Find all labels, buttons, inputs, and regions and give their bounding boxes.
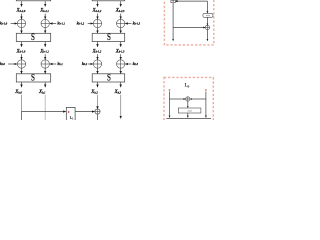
key arrow into XOR6 (from right) bbox=[50, 63, 56, 65]
wire into XOR5 bbox=[21, 54, 23, 59]
wire XOR2 to S bbox=[44, 28, 46, 33]
wire S out to label X_b-1,3 bbox=[120, 42, 122, 47]
svg-text:Xb-2,3: Xb-2,3 bbox=[115, 9, 125, 14]
key arrow into XOR2 (from right) bbox=[50, 23, 56, 25]
S-box round b-1 right bbox=[92, 33, 125, 43]
wire: arrow from top box to label X_b-2,1 bbox=[44, 1, 46, 6]
XOR3 (round b-1, word 2) bbox=[93, 19, 101, 27]
svg-text:S: S bbox=[107, 33, 111, 43]
wire into XOR7 bbox=[97, 54, 99, 59]
svg-text:Xb,2: Xb,2 bbox=[90, 90, 98, 95]
bottom XOR (mixing) bbox=[95, 109, 100, 114]
wire XOR1 to S bbox=[21, 28, 23, 33]
XOR6 (round b, word 1) bbox=[41, 60, 49, 68]
branch wire into small XOR of inset bbox=[173, 27, 205, 29]
wire S out to label X_b,0 bbox=[21, 82, 23, 87]
wire XOR8 to S bbox=[120, 68, 122, 73]
horizontal branch wire from column 0 into L box bbox=[22, 111, 66, 113]
svg-text:Xb-1,1: Xb-1,1 bbox=[39, 49, 49, 54]
L1 box (cropped at bottom) bbox=[66, 107, 75, 121]
svg-text:Xb-2,1: Xb-2,1 bbox=[39, 9, 49, 14]
wire column 2 down into bottom XOR bbox=[97, 95, 99, 109]
wire: arrow from top box to label X_b-2,0 bbox=[21, 1, 23, 6]
XOR5 (round b, word 0) bbox=[17, 60, 25, 68]
svg-text:S: S bbox=[107, 73, 111, 83]
wire L box to bottom XOR bbox=[75, 111, 95, 113]
wire rotation box output down bbox=[187, 113, 189, 118]
svg-text:Xb,3: Xb,3 bbox=[114, 90, 122, 95]
wire small XOR output down with arrow bbox=[206, 30, 208, 41]
inset rotation box bbox=[178, 108, 201, 113]
svg-text:Xb-2,2: Xb-2,2 bbox=[92, 9, 102, 14]
svg-text:Xb-1,3: Xb-1,3 bbox=[115, 49, 125, 54]
right input wire down bbox=[205, 92, 207, 118]
modular add box (cropped top) bbox=[171, 0, 175, 3]
wire into XOR8 bbox=[120, 54, 122, 59]
wire S out to label X_b,2 bbox=[97, 82, 99, 87]
wire XOR7 to S bbox=[97, 68, 99, 73]
cropped next stage box top edge bbox=[166, 118, 211, 120]
key arrow into XOR4 (from right) bbox=[125, 23, 131, 25]
key arrow into XOR1 bbox=[11, 23, 17, 25]
wire XOR5 to S bbox=[21, 68, 23, 73]
wire S out to label X_b,1 bbox=[44, 82, 46, 87]
svg-text:<<<: <<< bbox=[206, 14, 211, 18]
wire: arrow from top box to label X_b-2,3 bbox=[120, 1, 122, 6]
small XOR of top inset bbox=[205, 25, 209, 29]
red input arrow left bbox=[169, 89, 171, 91]
cropped previous-round S-box right (top edge remnant) bbox=[92, 0, 125, 1]
cropped previous-round S-box left (top edge remnant) bbox=[16, 0, 50, 1]
left input wire down bbox=[169, 92, 171, 118]
wire: arrow from top box to label X_b-2,2 bbox=[97, 1, 99, 6]
svg-text:Xb-1,2: Xb-1,2 bbox=[92, 49, 102, 54]
red dashed callout box (cropped top) bbox=[164, 0, 213, 45]
svg-text:S: S bbox=[31, 73, 35, 83]
wire into XOR4 bbox=[120, 14, 122, 19]
wire into XOR6 bbox=[44, 54, 46, 59]
S-box round b-1 left bbox=[16, 33, 50, 43]
svg-text:Xb,0: Xb,0 bbox=[14, 90, 22, 95]
wire S out to label X_b-1,2 bbox=[97, 42, 99, 47]
wire inset XOR into rotation box bbox=[187, 101, 189, 108]
branch wire left into inset XOR bbox=[170, 98, 186, 100]
wire XOR3 to S bbox=[97, 28, 99, 33]
S-box round b left bbox=[16, 73, 50, 83]
wire bottom XOR output down bbox=[97, 114, 99, 120]
branch wire right into inset XOR bbox=[190, 98, 206, 100]
left vertical wire with output arrow bbox=[172, 3, 174, 41]
wire XOR4 to S bbox=[120, 28, 122, 33]
wire column 0 continuation below junction bbox=[21, 112, 23, 121]
key arrow into XOR7 bbox=[88, 63, 93, 65]
right vertical wire into rotation box bbox=[206, 1, 208, 13]
S-box round b right bbox=[92, 73, 125, 83]
wire column 1 down (crosses linear layer) bbox=[44, 95, 46, 120]
key arrow into XOR5 bbox=[8, 63, 17, 65]
wire into XOR2 bbox=[44, 14, 46, 19]
svg-text:Xb-2,0: Xb-2,0 bbox=[16, 9, 26, 14]
inset XOR bbox=[186, 97, 190, 101]
XOR4 (round b-1, word 3) bbox=[117, 19, 125, 27]
svg-text:S: S bbox=[31, 33, 35, 43]
wire column 3 down with arrow bbox=[120, 95, 122, 119]
wire XOR6 to S bbox=[44, 68, 46, 73]
XOR7 (round b, word 2) bbox=[93, 60, 101, 68]
junction dot bbox=[176, 0, 178, 2]
wire S out to label X_b-1,1 bbox=[44, 42, 46, 47]
key arrow into XOR3 bbox=[88, 23, 93, 25]
rotation box (rounded) bbox=[203, 13, 213, 17]
red dashed callout box (cropped bottom) bbox=[164, 77, 213, 125]
svg-text:Xb,1: Xb,1 bbox=[38, 90, 46, 95]
wire S out to label X_b-1,0 bbox=[21, 42, 23, 47]
svg-text:L0: L0 bbox=[185, 84, 190, 89]
key arrow into XOR8 (from right) bbox=[125, 63, 131, 65]
svg-text:<<<: <<< bbox=[187, 109, 192, 113]
XOR8 (round b, word 3) bbox=[117, 60, 125, 68]
red input arrow right bbox=[205, 89, 207, 91]
wire S out to label X_b,3 bbox=[120, 82, 122, 87]
wire into XOR1 bbox=[21, 14, 23, 19]
XOR1 (round b-1, word 0) bbox=[17, 19, 25, 27]
wire from add box right to the right branch bbox=[175, 0, 207, 2]
wire rotation box to small XOR bbox=[206, 17, 208, 25]
wire into XOR3 bbox=[97, 14, 99, 19]
wire column 0 down to linear layer bbox=[21, 95, 23, 120]
XOR2 (round b-1, word 1) bbox=[41, 19, 49, 27]
svg-text:Xb-1,0: Xb-1,0 bbox=[16, 49, 26, 54]
